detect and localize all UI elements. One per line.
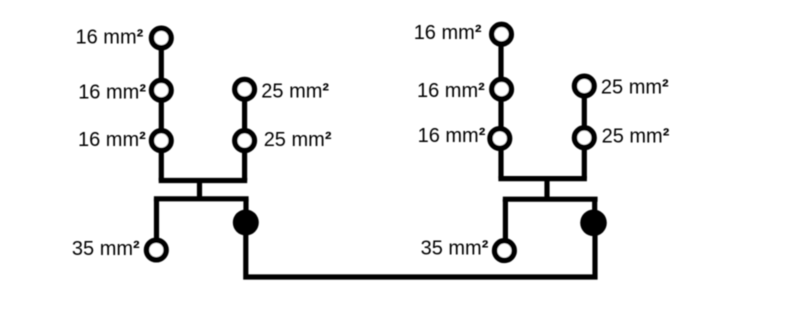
svg-text:16 mm²: 16 mm² [418,125,486,147]
terminal A1 right (16 mm2) [492,24,512,44]
terminal A3 left (16 mm2) [152,131,172,151]
terminal C right (35 mm2) [495,241,515,261]
wire: right drop to 35mm2 terminal [503,199,508,250]
wire: left drop to 35mm2 terminal [154,199,159,250]
terminal A2 right (16 mm2) [492,79,512,99]
svg-text:16 mm²: 16 mm² [76,27,144,49]
wire: right drop to junction [592,199,597,223]
wire: left center stub [197,181,202,199]
wire: right top bus bar [498,176,587,181]
terminal C left (35 mm2) [147,240,167,260]
junction node right (filled) [580,210,607,237]
terminal B1 left (25 mm2) [235,80,255,100]
svg-text:25 mm²: 25 mm² [602,125,670,147]
wire: left lower bus bar [157,199,247,202]
svg-text:35 mm²: 35 mm² [72,238,140,260]
wire: left column B vertical [242,89,247,180]
svg-text:16 mm²: 16 mm² [78,129,146,151]
wire: left top bus bar [159,178,248,183]
terminal A2 left (16 mm2) [152,80,172,100]
svg-text:16 mm²: 16 mm² [78,82,146,104]
wire: right column B vertical [582,86,587,179]
wire: right column A vertical [498,34,503,178]
terminal A3 right (16 mm2) [490,129,510,149]
junction node left (filled) [233,210,259,236]
svg-text:16 mm²: 16 mm² [417,80,485,102]
wire: right center stub [544,179,549,200]
wire: bottom interconnect [246,223,595,278]
svg-text:16 mm²: 16 mm² [414,22,482,44]
svg-text:25 mm²: 25 mm² [261,81,329,103]
svg-text:25 mm²: 25 mm² [264,129,332,151]
terminal B2 right (25 mm2) [575,128,595,148]
terminal A1 left (16 mm2) [152,28,172,48]
svg-text:25 mm²: 25 mm² [601,76,669,98]
svg-text:35 mm²: 35 mm² [421,237,489,259]
wire: right lower bus bar [505,199,595,202]
terminal B2 left (25 mm2) [235,131,255,151]
wire: left drop to junction [243,199,248,223]
wire: left column A vertical [159,38,164,181]
terminal B1 right (25 mm2) [575,76,595,96]
